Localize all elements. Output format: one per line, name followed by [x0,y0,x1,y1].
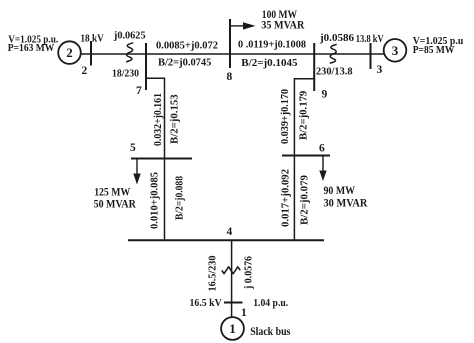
wire bus4 to transformer T1 [231,240,233,317]
generator G2 circle [58,41,81,64]
bus 4 [128,239,324,241]
svg-text:0 .0119+j0.1008: 0 .0119+j0.1008 [238,39,306,50]
svg-text:j0.0586: j0.0586 [319,33,354,44]
svg-text:0.017+j0.092: 0.017+j0.092 [281,169,292,227]
bus 5 [131,158,192,160]
bus 3 [370,43,372,69]
svg-text:B/2=j0.079: B/2=j0.079 [300,175,311,225]
svg-text:0.032+j0.161: 0.032+j0.161 [153,93,164,146]
svg-text:B/2=j0.0745: B/2=j0.0745 [158,58,211,69]
svg-text:0.039+j0.170: 0.039+j0.170 [280,89,291,144]
transformer T1 16.5/230 winding [222,267,240,274]
svg-text:30 MVAR: 30 MVAR [324,198,369,210]
svg-text:0.010+j0.085: 0.010+j0.085 [150,172,161,229]
load arrow bus 8 [231,25,244,26]
bus 2 [90,41,92,66]
svg-text:7: 7 [136,85,142,97]
load arrow bus 5 [136,160,137,176]
svg-text:Slack bus: Slack bus [250,326,291,338]
svg-text:P=163 MW: P=163 MW [8,43,55,54]
svg-text:1: 1 [229,321,236,336]
svg-text:2: 2 [82,65,88,77]
svg-text:8: 8 [227,71,233,83]
svg-text:B/2=j0.088: B/2=j0.088 [175,176,186,220]
wire line 9-6 upper bend [294,79,314,156]
bus 7 [145,43,147,90]
svg-text:0.0085+j0.072: 0.0085+j0.072 [156,41,218,52]
svg-text:j 0.0576: j 0.0576 [244,256,255,290]
svg-text:16.5 kV: 16.5 kV [190,298,223,309]
transformer T2 18/230 winding [126,43,133,62]
svg-text:5: 5 [130,142,136,154]
svg-text:230/13.8: 230/13.8 [316,67,353,78]
svg-text:1: 1 [241,307,247,319]
svg-text:3: 3 [392,43,399,58]
svg-text:B/2=j0.1045: B/2=j0.1045 [241,58,297,69]
svg-text:50 MVAR: 50 MVAR [94,199,137,211]
svg-text:B/2=j0.153: B/2=j0.153 [170,94,181,144]
svg-text:j0.0625: j0.0625 [113,30,146,41]
generator G3 circle [384,39,407,62]
svg-text:4: 4 [227,226,233,238]
wire main top line 2-7-8-9-3 [81,53,385,55]
wire line 5-4 [164,159,166,241]
wire line 7-5 upper bend [146,78,165,158]
generator G1 circle (slack) [221,317,244,340]
load arrow bus 6 [322,157,323,173]
bus 1 [224,302,243,304]
svg-text:16.5/230: 16.5/230 [208,256,219,292]
svg-text:18 kV: 18 kV [80,34,104,45]
bus 6 [282,155,330,157]
svg-text:P=85 MW: P=85 MW [413,45,455,56]
svg-text:9: 9 [322,89,328,101]
svg-text:2: 2 [66,45,73,60]
svg-text:3: 3 [377,64,383,76]
bus 9 [313,43,315,91]
svg-text:125 MW: 125 MW [94,187,130,199]
bus 8 [229,19,231,68]
svg-text:B/2=j0.179: B/2=j0.179 [299,91,310,140]
transformer T3 230/13.8 winding [330,44,337,63]
svg-text:6: 6 [319,143,325,155]
svg-text:1.04 p.u.: 1.04 p.u. [253,298,288,309]
wire line 6-4 [293,156,295,241]
svg-text:90 MW: 90 MW [324,185,356,197]
svg-text:13.8 kV: 13.8 kV [356,34,384,45]
svg-text:35 MVAR: 35 MVAR [261,19,305,31]
svg-text:18/230: 18/230 [112,69,139,80]
